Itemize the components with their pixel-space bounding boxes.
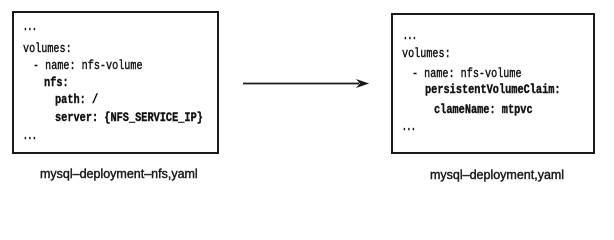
left box line 5: path: / — [55, 93, 98, 106]
left box line 6: server — [55, 111, 203, 124]
right box line 5: clameName: mtpvc — [434, 103, 533, 116]
right caption — [430, 169, 564, 182]
left caption — [40, 168, 198, 181]
left box line 7: ... — [23, 129, 37, 142]
left box line 4: nfs: — [44, 76, 69, 89]
left yaml box — [12, 11, 219, 154]
right yaml box — [391, 13, 595, 154]
left box line 1: ... — [23, 20, 37, 33]
left box line 2: volumes: — [23, 42, 72, 55]
left box line 3: - name: nfs-volume — [33, 59, 143, 72]
right box line 2: volumes: — [402, 47, 451, 60]
right box line 1: ... — [403, 29, 417, 42]
right box line 6: ... — [402, 120, 416, 133]
right box line 4: persistentVolumeClaim: — [425, 83, 561, 96]
arrow — [240, 74, 374, 94]
right box line 3: - name: nfs-volume — [412, 67, 522, 80]
